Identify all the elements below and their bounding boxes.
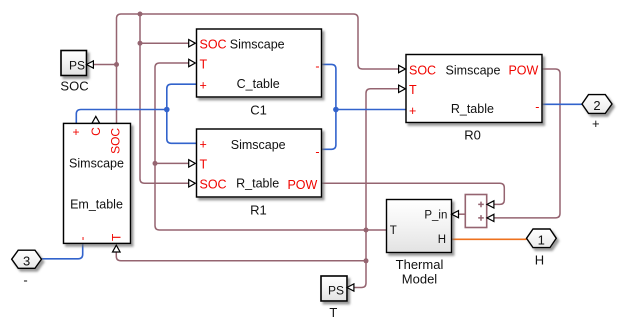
resistor block R1 (R_table) <box>197 129 322 218</box>
wire Em_table + to node A <box>76 110 167 124</box>
wire Thermal H to port1 (orange) <box>452 238 527 240</box>
svg-text:C1: C1 <box>250 102 267 117</box>
svg-text:POW: POW <box>508 63 538 77</box>
wire R0 POW to add input 2 <box>494 69 560 218</box>
resistor block R0 (R_table) <box>406 55 542 143</box>
svg-text:2: 2 <box>593 98 600 113</box>
pin arrow Em T <box>113 245 121 252</box>
node: T cross junction <box>364 228 369 233</box>
pin arrow add input 1 <box>487 201 494 208</box>
svg-text:-: - <box>315 145 319 159</box>
svg-text:PS: PS <box>328 283 344 297</box>
svg-text:Em_table: Em_table <box>70 198 123 212</box>
wire C1 - down to node B <box>322 64 336 109</box>
pin arrow R1 SOC <box>189 180 196 187</box>
svg-text:SOC: SOC <box>409 63 436 77</box>
svg-text:R0: R0 <box>464 127 481 142</box>
node: SOC to PS junction <box>114 62 119 67</box>
svg-text:H: H <box>535 252 544 267</box>
svg-text:Thermal: Thermal <box>396 257 444 272</box>
capacitor block C1 (C_table) <box>197 29 322 117</box>
svg-text:R_table: R_table <box>236 176 279 190</box>
svg-text:Simscape: Simscape <box>231 138 286 152</box>
wire SOC branch down to R1 SOC <box>140 14 189 183</box>
node B blue junction <box>333 107 339 113</box>
svg-text:+: + <box>409 104 416 118</box>
pin arrow PS T <box>347 284 354 291</box>
svg-text:Model: Model <box>402 272 438 287</box>
svg-text:C: C <box>89 127 103 136</box>
svg-text:-: - <box>535 100 539 114</box>
wire T branch to R1 T <box>155 162 189 164</box>
svg-text:T: T <box>409 83 417 97</box>
pin arrow R1 T <box>189 160 196 167</box>
wire SOC branch to C1 SOC <box>140 42 189 44</box>
wire SOC branch to PS converter <box>93 64 116 66</box>
svg-text:1: 1 <box>538 233 545 248</box>
plus mark add input 1 <box>478 202 484 208</box>
wire T branch: C1 T down and across to Thermal Model T <box>155 63 387 230</box>
svg-text:POW: POW <box>287 178 317 192</box>
svg-text:SOC: SOC <box>60 78 88 93</box>
pin arrow R0 SOC <box>399 65 406 72</box>
pin arrow R0 T <box>399 85 406 92</box>
node: T to R1 junction <box>153 161 158 166</box>
port 3 hexagon (-) <box>12 250 42 287</box>
svg-text:-: - <box>23 272 27 287</box>
svg-text:SOC: SOC <box>109 128 123 154</box>
svg-text:H: H <box>438 234 446 246</box>
svg-text:T: T <box>200 158 208 172</box>
svg-text:Simscape: Simscape <box>230 38 285 52</box>
wire SOC net: Em_table SOC up, across top, down to R0 SOC <box>117 14 399 123</box>
wire node A up to C1 + <box>167 84 197 109</box>
wire R0 - to port2 <box>542 103 582 105</box>
plus mark add input 2 <box>478 215 484 221</box>
svg-text:Simscape: Simscape <box>69 157 124 171</box>
svg-text:Simscape: Simscape <box>446 63 501 77</box>
svg-text:T: T <box>390 225 397 237</box>
node: SOC top junction <box>138 12 143 17</box>
svg-text:R_table: R_table <box>451 102 494 116</box>
wire T net: PS(T) up to R0 T <box>354 89 399 288</box>
svg-text:SOC: SOC <box>200 38 227 52</box>
wire node A down to R1 + <box>167 110 197 144</box>
node A blue junction <box>164 107 170 113</box>
wire node B to R0 + <box>336 109 406 111</box>
wire add output to P_in <box>458 213 465 215</box>
node: T to Em junction <box>364 258 369 263</box>
source block Em_table <box>64 123 131 243</box>
svg-text:T: T <box>109 233 123 241</box>
wire port3 to Em_table - <box>42 244 83 259</box>
port 1 hexagon (H) <box>527 229 557 267</box>
svg-text:+: + <box>200 78 207 92</box>
svg-text:+: + <box>200 138 207 152</box>
pin arrow C1 T <box>189 59 196 66</box>
svg-text:SOC: SOC <box>200 178 227 192</box>
pin arrow PS SOC <box>87 61 94 68</box>
port 2 hexagon (+) <box>582 95 612 132</box>
svg-text:P_in: P_in <box>424 210 447 222</box>
wire T branch to Em_table T <box>116 252 366 261</box>
converter PS (T) <box>321 276 347 320</box>
node: SOC to C1 junction <box>138 41 143 46</box>
wire node B down to R1 - <box>322 110 336 150</box>
subsystem Thermal Model <box>387 200 452 287</box>
pin arrow Thermal P_in <box>452 211 459 218</box>
converter PS (SOC) <box>60 51 88 94</box>
pin arrow C1 SOC <box>189 40 196 47</box>
svg-text:T: T <box>329 305 337 320</box>
svg-text:R1: R1 <box>250 203 267 218</box>
svg-text:PS: PS <box>69 59 85 73</box>
svg-text:-: - <box>315 60 319 74</box>
pin arrow Em C <box>92 116 100 123</box>
svg-text:+: + <box>72 125 79 139</box>
svg-text:-: - <box>75 237 89 241</box>
wire R1 POW to add input 1 <box>322 183 505 204</box>
svg-text:3: 3 <box>23 253 30 268</box>
svg-text:T: T <box>200 57 208 71</box>
svg-text:+: + <box>592 116 600 131</box>
pin arrow add input 2 <box>487 214 494 221</box>
PS add block (flipped) <box>465 195 486 228</box>
svg-text:C_table: C_table <box>237 77 280 91</box>
